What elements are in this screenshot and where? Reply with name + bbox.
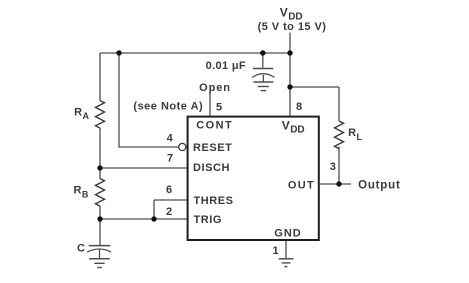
svg-text:OUT: OUT (288, 179, 315, 191)
svg-text:7: 7 (167, 153, 173, 165)
svg-text:3: 3 (330, 161, 336, 173)
svg-text:5: 5 (216, 102, 222, 114)
svg-text:4: 4 (167, 133, 174, 145)
svg-text:B: B (82, 189, 89, 199)
svg-text:RESET: RESET (193, 142, 232, 154)
svg-text:TRIG: TRIG (194, 214, 222, 226)
svg-text:C: C (77, 243, 85, 255)
svg-text:Output: Output (358, 179, 400, 191)
svg-text:V: V (280, 6, 288, 20)
svg-text:2: 2 (166, 206, 172, 218)
svg-text:DISCH: DISCH (193, 162, 230, 174)
svg-text:R: R (74, 107, 82, 119)
svg-text:V: V (282, 118, 290, 132)
svg-text:8: 8 (296, 101, 302, 113)
svg-text:THRES: THRES (194, 195, 234, 207)
svg-text:R: R (74, 185, 82, 197)
svg-text:Open: Open (199, 82, 231, 94)
svg-text:0.01 μF: 0.01 μF (206, 60, 246, 72)
svg-text:(5 V to 15 V): (5 V to 15 V) (258, 21, 327, 33)
svg-text:CONT: CONT (196, 120, 233, 132)
svg-text:L: L (357, 132, 363, 142)
svg-text:R: R (348, 127, 356, 139)
svg-text:1: 1 (272, 245, 278, 257)
svg-text:DD: DD (290, 125, 304, 136)
svg-text:6: 6 (166, 184, 172, 196)
svg-text:GND: GND (274, 228, 301, 240)
svg-text:(see Note A): (see Note A) (133, 101, 203, 113)
svg-text:A: A (83, 111, 90, 121)
